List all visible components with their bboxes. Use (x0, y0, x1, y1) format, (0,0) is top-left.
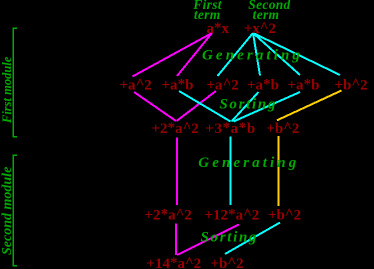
svg-text:+x^2: +x^2 (244, 20, 276, 37)
svg-text:+a*b: +a*b (162, 77, 194, 94)
svg-text:Generating: Generating (198, 155, 299, 171)
svg-text:+14*a^2: +14*a^2 (146, 255, 201, 269)
svg-text:+a*b: +a*b (288, 77, 320, 94)
svg-text:+b^2: +b^2 (211, 255, 244, 269)
svg-text:+a^2: +a^2 (120, 77, 152, 94)
svg-text:Generating: Generating (202, 48, 303, 64)
svg-text:First module: First module (0, 56, 14, 124)
svg-text:a*x: a*x (207, 20, 230, 37)
svg-text:+2*a^2: +2*a^2 (145, 207, 192, 224)
svg-text:+12*a^2: +12*a^2 (205, 207, 260, 224)
svg-text:+b^2: +b^2 (268, 207, 301, 224)
svg-text:+a*b: +a*b (247, 77, 279, 94)
svg-text:Second module: Second module (0, 167, 15, 255)
svg-text:+2*a^2: +2*a^2 (152, 120, 199, 137)
svg-text:+3*a*b: +3*a*b (205, 120, 256, 137)
svg-text:+b^2: +b^2 (335, 77, 368, 94)
svg-text:+a^2: +a^2 (207, 77, 239, 94)
svg-text:+b^2: +b^2 (266, 120, 299, 137)
svg-text:Sorting: Sorting (219, 97, 277, 113)
svg-text:Sorting: Sorting (201, 230, 259, 246)
